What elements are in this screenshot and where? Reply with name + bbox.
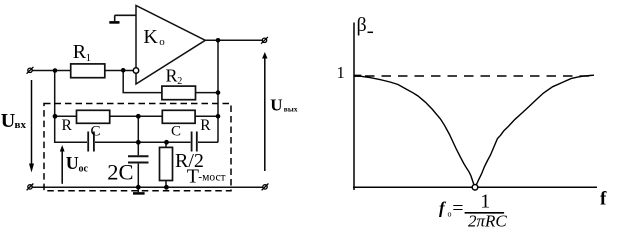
svg-text:1: 1	[86, 52, 92, 64]
svg-text:2C: 2C	[107, 160, 133, 185]
svg-text:о: о	[448, 210, 452, 219]
svg-text:=: =	[452, 198, 463, 220]
svg-text:U: U	[270, 96, 282, 115]
svg-text:U: U	[66, 153, 79, 173]
svg-text:ос: ос	[79, 163, 89, 174]
svg-text:1: 1	[337, 63, 345, 82]
svg-text:вых: вых	[284, 105, 298, 114]
svg-text:f: f	[600, 188, 607, 209]
svg-text:β: β	[357, 14, 367, 36]
svg-text:Т: Т	[187, 166, 199, 188]
svg-text:U: U	[1, 110, 15, 132]
svg-text:2πRC: 2πRC	[468, 212, 507, 231]
svg-text:C: C	[91, 124, 101, 140]
svg-text:K: K	[143, 26, 158, 48]
svg-text:1: 1	[480, 190, 490, 212]
svg-text:вх: вх	[15, 119, 27, 131]
svg-text:R: R	[62, 117, 73, 134]
svg-text:R: R	[200, 117, 211, 134]
svg-text:-мост: -мост	[198, 172, 225, 184]
svg-text:f: f	[439, 199, 447, 218]
svg-text:C: C	[171, 124, 181, 140]
svg-text:о: о	[159, 36, 165, 48]
svg-text:2: 2	[177, 76, 182, 87]
svg-text:R: R	[166, 65, 178, 85]
